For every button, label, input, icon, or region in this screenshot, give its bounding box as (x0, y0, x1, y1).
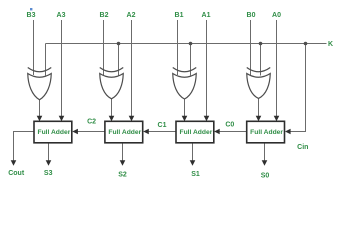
svg-text:C2: C2 (87, 119, 96, 126)
svg-text:Full Adder: Full Adder (179, 129, 212, 136)
svg-text:C1: C1 (158, 122, 167, 129)
svg-text:S0: S0 (261, 173, 270, 180)
svg-text:Full Adder: Full Adder (108, 129, 141, 136)
svg-text:A3: A3 (57, 12, 66, 19)
svg-text:S3: S3 (44, 170, 53, 177)
svg-text:C0: C0 (225, 122, 234, 129)
svg-text:B1: B1 (175, 12, 184, 19)
svg-text:A1: A1 (202, 12, 211, 19)
svg-text:B0: B0 (247, 12, 256, 19)
svg-text:B2: B2 (100, 12, 109, 19)
svg-text:Cout: Cout (8, 170, 25, 177)
svg-text:A0: A0 (272, 12, 281, 19)
svg-text:A2: A2 (127, 12, 136, 19)
svg-text:S1: S1 (191, 171, 200, 178)
svg-text:B3: B3 (27, 12, 36, 19)
svg-text:Full Adder: Full Adder (37, 129, 70, 136)
svg-text:Cin: Cin (297, 144, 308, 151)
svg-text:K: K (328, 41, 333, 48)
svg-text:Full Adder: Full Adder (250, 129, 283, 136)
svg-text:S2: S2 (118, 172, 127, 179)
